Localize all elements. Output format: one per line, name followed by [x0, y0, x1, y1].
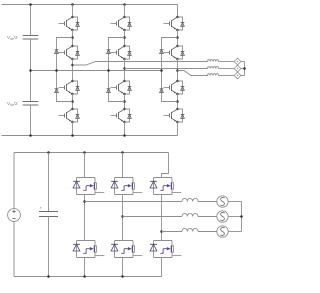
- node leg2 top: [123, 3, 126, 6]
- wire leg2 seg1: [124, 5, 126, 18]
- wire phase B: [125, 68, 208, 70]
- wire Vb bus: [241, 68, 245, 70]
- clamp diode D16: [55, 89, 59, 93]
- inductor La: [208, 60, 219, 62]
- node phase1b tap: [83, 200, 86, 203]
- inductor Lb: [208, 67, 219, 69]
- node leg1 clamp top tap: [71, 36, 74, 39]
- wire Lb out: [219, 68, 235, 70]
- wire leg2b exit: [122, 258, 124, 277]
- node leg2b top: [121, 151, 124, 154]
- wire phase C2: [162, 231, 183, 233]
- wire Vc bus: [241, 75, 245, 77]
- wire leg3 seg1: [177, 5, 179, 18]
- wire neutral bus: [31, 70, 162, 72]
- igbt Q34: [164, 108, 185, 124]
- mosfet cell S31: [150, 178, 181, 195]
- wire leg3b entry: [162, 153, 169, 178]
- node cap2 top: [47, 151, 50, 154]
- wire phase B2: [123, 216, 183, 218]
- inductor La2: [182, 198, 198, 201]
- wire leg1b mid: [84, 195, 86, 241]
- node phase2b tap: [121, 215, 124, 218]
- node cap2 bottom: [47, 275, 50, 278]
- wire leg1 seg5: [72, 122, 74, 136]
- node leg2b bottom: [121, 275, 124, 278]
- wire Va bus: [241, 61, 245, 63]
- node leg1 clamp bottom tap: [71, 100, 74, 103]
- wire top DC+ rail: [2, 4, 178, 6]
- node phase3b tap: [160, 230, 163, 233]
- wire leg1b exit: [84, 258, 86, 277]
- ac source Va2: [217, 196, 228, 207]
- wire leg2b mid: [122, 195, 124, 241]
- wire Lc out: [219, 75, 235, 77]
- wire Lb2 out: [198, 216, 217, 218]
- dc source V1: [8, 209, 21, 222]
- wire source top: [13, 153, 15, 209]
- node leg1b bottom: [83, 275, 86, 278]
- node leg1 top: [71, 3, 74, 6]
- node clamp2 neutral: [107, 69, 110, 72]
- mosfet cell S32: [150, 241, 181, 258]
- igbt Q32: [164, 45, 185, 61]
- inductor Lb2: [182, 213, 198, 216]
- wire clamp branch leg3: [162, 38, 178, 102]
- wire leg3 seg3: [177, 59, 179, 81]
- wire leg2 seg3: [124, 59, 126, 81]
- ac source Vc2: [217, 226, 228, 237]
- wire bottom DC+ rail: [14, 152, 169, 154]
- wire capacitor branch upper: [30, 5, 32, 36]
- wire leg3 seg2: [177, 30, 179, 46]
- node clamp1 neutral: [55, 69, 58, 72]
- ac source Va: [234, 58, 241, 65]
- wire bottom DC- rail: [14, 276, 162, 278]
- wire leg1 seg1: [72, 5, 74, 18]
- mosfet cell S12: [73, 241, 104, 258]
- svg-text:+: +: [40, 206, 43, 211]
- wire leg3 seg5: [177, 122, 179, 136]
- igbt Q22: [111, 45, 132, 61]
- wire phase A: [73, 62, 208, 66]
- wire phase A2: [85, 201, 183, 203]
- wire leg2b entry: [122, 153, 124, 178]
- node star point 2: [240, 215, 243, 218]
- inductor Lc: [208, 74, 219, 76]
- wire clamp branch leg1: [57, 38, 73, 102]
- wire Va2 bus: [228, 201, 241, 203]
- wire leg1b entry: [84, 153, 86, 178]
- wire source bottom: [13, 221, 15, 276]
- wire star bus 2: [241, 202, 243, 232]
- capacitor C2: [23, 102, 39, 106]
- wire cap branch lower: [30, 105, 32, 136]
- wire Vc2 bus: [228, 231, 241, 233]
- wire La out: [219, 61, 235, 63]
- node leg1b top: [83, 151, 86, 154]
- wire star bus: [244, 62, 246, 76]
- node phase C tap: [176, 69, 179, 72]
- capacitor C3: [39, 212, 58, 217]
- node cap branch bottom: [29, 134, 32, 137]
- igbt Q21: [111, 16, 132, 32]
- wire leg3 seg4: [177, 94, 179, 109]
- node leg3 clamp top tap: [176, 36, 179, 39]
- wire phase C: [178, 71, 208, 76]
- wire cap2 upper: [48, 153, 50, 212]
- clamp diode D35: [160, 50, 164, 54]
- wire cap mid: [30, 39, 32, 102]
- igbt Q24: [111, 108, 132, 124]
- wire leg3b exit: [161, 258, 163, 277]
- node leg2 clamp bottom tap: [123, 100, 126, 103]
- node leg1 bottom: [71, 134, 74, 137]
- ac source Vc: [234, 72, 241, 79]
- mosfet cell S22: [111, 241, 142, 258]
- igbt Q12: [59, 45, 80, 61]
- clamp diode D36: [160, 89, 164, 93]
- wire La2 out: [198, 201, 217, 203]
- igbt Q13: [59, 80, 80, 96]
- wire leg1 seg4: [72, 94, 74, 109]
- wire top DC- rail: [2, 135, 178, 137]
- wire leg1 seg2: [72, 30, 74, 46]
- wire leg2 seg4: [124, 94, 126, 109]
- wire cap2 lower: [48, 217, 50, 277]
- node clamp3 neutral: [160, 69, 163, 72]
- clamp diode D26: [107, 89, 111, 93]
- clamp diode D25: [107, 50, 111, 54]
- ac source Vb2: [217, 211, 228, 222]
- node phase A tap: [71, 64, 74, 67]
- igbt Q31: [164, 16, 185, 32]
- wire Vb2 bus: [228, 216, 241, 218]
- node leg2 bottom: [123, 134, 126, 137]
- wire leg3b mid: [161, 195, 163, 241]
- wire leg2 seg2: [124, 30, 126, 46]
- capacitor C1: [23, 36, 39, 40]
- igbt Q33: [164, 80, 185, 96]
- wire leg1 seg3: [72, 59, 74, 81]
- ac source Vb: [234, 65, 241, 72]
- mosfet cell S11: [73, 178, 104, 195]
- igbt Q23: [111, 80, 132, 96]
- clamp diode D15: [55, 50, 59, 54]
- node cap neutral: [29, 69, 32, 72]
- node cap branch top: [29, 3, 32, 6]
- wire clamp branch leg2: [109, 38, 125, 102]
- wire leg2 seg5: [124, 122, 126, 136]
- wire Lc2 out: [198, 231, 217, 233]
- igbt Q14: [59, 108, 80, 124]
- node star point: [243, 67, 246, 70]
- node leg3 clamp bottom tap: [176, 100, 179, 103]
- node phase B tap: [123, 67, 126, 70]
- igbt Q11: [59, 16, 80, 32]
- node leg2 clamp top tap: [123, 36, 126, 39]
- mosfet cell S21: [111, 178, 142, 195]
- inductor Lc2: [182, 228, 198, 231]
